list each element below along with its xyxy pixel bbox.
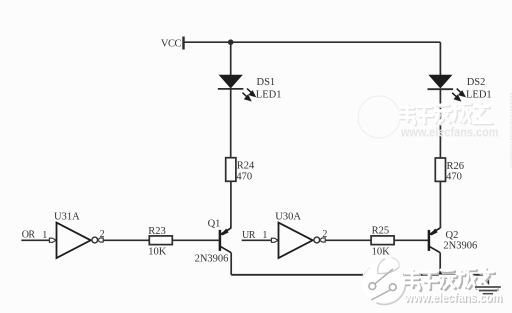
VCC terminal bar [182,37,184,50]
svg-text:R24: R24 [237,161,255,172]
bubble U31A output [92,237,98,243]
svg-text:10K: 10K [148,247,167,258]
svg-text:VCC: VCC [161,38,182,49]
wire U30A to R25 [326,239,372,241]
inner link icon [369,283,376,290]
svg-text:U31A: U31A [54,212,80,223]
svg-text:www.elecfans.com: www.elecfans.com [400,126,498,140]
resistor R25 [371,236,394,245]
svg-text:U30A: U30A [275,212,301,223]
wire R24 to Q1 emitter [230,181,232,228]
resistor R24 [226,158,236,182]
wire UR input [242,239,272,241]
transistor Q2 2N3906 [429,228,440,253]
junction dot at DS1 anode [228,39,234,45]
svg-text:DS2: DS2 [467,77,486,88]
svg-text:LED1: LED1 [256,90,282,101]
wire Q2 collector down [439,253,441,274]
ground [475,287,501,294]
resistor R26 [435,158,445,181]
resistor R23 [149,236,172,245]
svg-text:www.elecfans.com: www.elecfans.com [404,291,502,305]
svg-text:470: 470 [236,172,252,183]
transistor Q1 2N3906 [220,228,231,253]
watermark url text [404,291,504,306]
svg-text:R26: R26 [447,161,465,172]
wire to ground [487,275,489,287]
svg-text:Q2: Q2 [446,230,459,241]
pin arrow U30A input [271,238,278,242]
svg-text:2N3906: 2N3906 [195,253,229,264]
wire VCC to DS1 [230,42,232,76]
pin arrow U30A output [319,238,325,242]
LED DS1 arrows [243,89,255,101]
watermark middle-right (faint) [358,96,499,140]
svg-text:DS1: DS1 [257,77,276,88]
wire R26 to Q2 emitter [439,181,441,228]
inverter U31A [57,223,91,258]
svg-text:1: 1 [42,230,47,241]
wire R23 to Q1 base [172,239,219,241]
wire R25 to Q2 base [394,239,428,241]
svg-text:10K: 10K [372,247,391,258]
svg-text:2: 2 [100,229,105,240]
svg-text:OR: OR [22,230,36,241]
svg-text:2N3906: 2N3906 [443,241,477,252]
svg-text:R25: R25 [372,225,390,236]
wire VCC rail top [184,41,440,43]
wire bottom rail [231,274,489,276]
svg-text:2: 2 [322,229,327,240]
wire DS1 to R24 [230,89,232,158]
svg-text:R23: R23 [148,226,166,237]
pin arrow U31A input [49,238,56,242]
junction dot Q2 collector [438,272,442,276]
svg-text:www.elecfans.com: www.elecfans.com [507,91,512,168]
LED DS2 arrows [452,89,464,101]
LED DS2 [428,75,465,100]
wire Q1 collector down [230,253,232,275]
bubble U30A output [314,237,320,243]
svg-text:UR: UR [242,230,256,241]
pin arrow U31A output [97,238,103,242]
svg-text:LED1: LED1 [466,90,492,101]
watermark logo disc [362,258,406,305]
LED DS1 [218,75,255,100]
svg-text:1: 1 [262,230,267,241]
svg-text:Q1: Q1 [208,219,221,230]
leaf [378,258,400,274]
wire U31A to R23 [104,239,150,241]
wire OR input [21,239,49,241]
inverter U30A [279,223,313,258]
svg-text:470: 470 [446,172,462,183]
wire VCC to DS2 [439,42,441,76]
wire DS2 to R26 [439,89,441,158]
